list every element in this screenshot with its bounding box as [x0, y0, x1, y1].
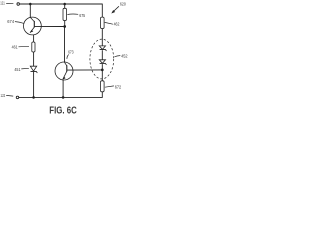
wire node down to Q673 collector	[64, 27, 66, 63]
svg-text:673: 673	[68, 50, 74, 56]
pointer from 673	[67, 55, 69, 59]
transistor Q674 circle	[24, 17, 42, 35]
transistor Q673 emitter diagonal	[63, 71, 67, 79]
transistor Q674 emitter diagonal	[30, 27, 34, 33]
top rail wire	[20, 3, 103, 5]
svg-text:675: 675	[79, 13, 85, 19]
arrow 620	[113, 6, 119, 12]
wire D451 to bottom rail	[33, 72, 35, 98]
pointer from 461	[19, 45, 30, 48]
upper diode D1 triangle	[99, 46, 105, 50]
transistor Q674 collector diagonal	[30, 17, 34, 21]
arrowhead 620	[111, 10, 115, 14]
wire D2 to node	[101, 64, 103, 81]
wire R675 to node	[64, 21, 66, 27]
wire Q674 emitter to R461	[33, 35, 35, 42]
node dot top rail at R675	[63, 3, 66, 6]
pointer from 674	[15, 22, 24, 24]
wire base Q673 to right chain	[67, 69, 102, 71]
node dot top rail at collector of 674	[29, 3, 32, 6]
terminal 121	[17, 3, 20, 6]
transistor Q674 emitter arrowhead	[30, 30, 33, 33]
node dot base junction	[101, 69, 104, 72]
lower diode D2 bar tick	[105, 63, 108, 65]
svg-text:451: 451	[14, 67, 20, 73]
svg-text:122: 122	[1, 93, 6, 99]
wire R461 to diode D451	[33, 52, 35, 66]
pointer dash from 121	[6, 3, 13, 5]
wire R462 to upper LED	[101, 29, 103, 47]
node dot base674/collector673	[63, 25, 66, 28]
resistor R462	[101, 17, 105, 28]
dashed ellipse optocoupler outline	[90, 39, 114, 79]
wire collector 674	[29, 4, 31, 17]
diode D451 triangle	[30, 66, 36, 71]
terminal 122	[16, 96, 19, 99]
wire D1 to D2	[101, 50, 103, 60]
diode D451 cathode bar	[31, 71, 37, 73]
pointer from 462	[105, 22, 113, 24]
svg-text:462: 462	[114, 22, 120, 28]
diode D451 bar tick	[35, 72, 38, 74]
bottom rail wire	[19, 96, 102, 98]
wire R672 to bottom rail corner	[101, 92, 103, 98]
svg-text:620: 620	[120, 2, 126, 8]
resistor R675	[63, 8, 67, 20]
wire top rail to R675	[64, 4, 66, 8]
node dot bottom rail middle	[62, 96, 65, 99]
wire Q673 emitter to bottom rail	[62, 80, 64, 98]
node dot bottom rail left	[32, 96, 35, 99]
transistor Q673 base bar	[66, 65, 68, 71]
transistor Q673 collector diagonal	[65, 62, 67, 66]
transistor Q674 base bar	[33, 21, 35, 28]
resistor R672	[101, 81, 105, 92]
svg-text:674: 674	[7, 19, 14, 25]
transistor Q673 circle	[55, 62, 73, 80]
top rail right corner down	[101, 4, 103, 18]
resistor R461	[32, 42, 35, 52]
lower diode D2 triangle	[99, 60, 105, 64]
pointer dash from 122	[6, 94, 13, 97]
upper diode D1 bar tick	[105, 50, 108, 52]
upper diode D1 bar	[100, 49, 106, 51]
svg-text:452: 452	[121, 54, 128, 60]
pointer from 672	[105, 86, 114, 87]
pointer from 451	[21, 67, 29, 70]
pointer from 675	[67, 13, 78, 16]
svg-text:FIG. 6C: FIG. 6C	[49, 106, 77, 117]
wire base Q674	[34, 25, 64, 27]
svg-text:121: 121	[0, 1, 5, 7]
transistor Q673 emitter arrowhead	[63, 76, 66, 79]
lower diode D2 bar	[100, 62, 106, 64]
svg-text:461: 461	[12, 44, 18, 50]
svg-text:672: 672	[115, 85, 122, 91]
pointer from 452	[114, 56, 120, 57]
